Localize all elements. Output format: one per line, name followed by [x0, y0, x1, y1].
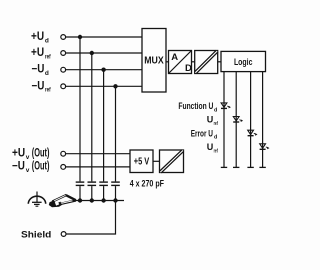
+5V converter U5	[130, 150, 153, 173]
wire vertical from +Uref node to C2	[91, 53, 93, 181]
DIN rail contact symbol	[49, 195, 76, 207]
wire -Ud to MUX	[66, 69, 142, 71]
svg-text:4 x 270 pF: 4 x 270 pF	[130, 179, 165, 189]
endcap output 4	[259, 166, 265, 168]
node C2 bus	[90, 198, 94, 202]
wire +Ud to MUX	[66, 36, 142, 38]
svg-text:D: D	[185, 63, 192, 74]
label +Uref	[31, 47, 51, 60]
svg-text:U: U	[207, 142, 214, 152]
capacitor C4	[111, 182, 120, 185]
svg-text:ref: ref	[45, 87, 51, 94]
capacitor C2	[88, 182, 97, 185]
svg-text:d: d	[214, 107, 217, 113]
label Error Ud	[191, 129, 218, 141]
wire C3 to bus	[103, 186, 105, 200]
wire -Uv to 5V converter	[66, 166, 130, 168]
svg-text:(Out): (Out)	[32, 161, 50, 173]
wire +Uv to 5V converter	[66, 153, 130, 155]
MUX U1	[142, 29, 166, 93]
svg-text:ref: ref	[45, 53, 51, 60]
wire C4 to bus	[115, 186, 117, 200]
svg-text:U: U	[207, 115, 214, 125]
svg-text:A: A	[171, 52, 178, 63]
label Function Ud	[178, 101, 217, 113]
wire vertical from +Ud node to C1	[79, 37, 81, 181]
wire C2 to bus	[91, 186, 93, 200]
node on -Uref wire	[113, 84, 117, 88]
wire Logic output 2	[235, 72, 237, 168]
label +Ud	[31, 31, 49, 44]
label -Uref	[32, 80, 52, 93]
terminal +Uref	[61, 51, 66, 56]
endcap output 3	[247, 166, 253, 168]
svg-text:−U: −U	[32, 64, 45, 76]
wire vertical from -Uref node to C4	[115, 86, 117, 181]
capacitor C3	[99, 182, 108, 185]
galvanic isolator U3	[195, 51, 218, 74]
svg-text:+5 V: +5 V	[134, 157, 150, 168]
svg-text:+U: +U	[31, 31, 44, 43]
node C3 bus	[101, 198, 105, 202]
node on -Ud wire	[101, 68, 105, 72]
functional earth symbol	[28, 192, 45, 207]
node C4 bus	[113, 198, 117, 202]
wire vertical from -Ud node to C3	[103, 70, 105, 182]
terminal -Ud	[61, 67, 66, 72]
label -Ud	[32, 64, 49, 77]
wire +Uref to MUX	[66, 52, 142, 54]
label +Uv (Out)	[12, 147, 50, 160]
svg-text:Logic: Logic	[234, 57, 253, 68]
wire C1 to bus	[79, 186, 81, 200]
svg-text:d: d	[45, 70, 49, 77]
terminal -Uv (Out)	[61, 165, 66, 170]
svg-text:+U: +U	[12, 147, 25, 159]
endcap output 1	[221, 166, 227, 168]
svg-text:d: d	[45, 37, 49, 44]
LED D4 Uref	[260, 144, 270, 150]
svg-text:+U: +U	[31, 47, 44, 59]
capacitor C1	[76, 182, 85, 185]
svg-text:Function U: Function U	[178, 101, 213, 111]
LED D3 Error Ud	[248, 130, 258, 136]
svg-text:Error U: Error U	[191, 129, 213, 139]
label -Uv (Out)	[12, 161, 50, 174]
label Uref row2	[207, 115, 218, 127]
LED D1 Function Ud	[221, 103, 231, 109]
wire Logic output 4	[262, 72, 264, 168]
svg-text:ref: ref	[214, 148, 218, 154]
terminal Shield	[61, 232, 66, 237]
node on +Uref wire	[90, 51, 94, 55]
svg-text:MUX: MUX	[144, 56, 164, 67]
svg-text:−U: −U	[32, 80, 45, 92]
wire Logic output 3	[250, 72, 252, 168]
label Uref row4	[207, 142, 218, 154]
wire Logic output 1	[223, 72, 225, 168]
svg-text:v: v	[26, 167, 30, 174]
svg-text:v: v	[26, 154, 30, 161]
wire MUX to A/D	[166, 61, 169, 63]
svg-text:ref: ref	[214, 121, 218, 127]
wire isolator to Logic	[218, 61, 221, 63]
wire A/D to isolator	[192, 61, 195, 63]
galvanic isolator U6	[160, 150, 184, 173]
terminal +Uv (Out)	[61, 151, 66, 156]
wire 5V to isolator 2	[153, 160, 160, 162]
Logic U4	[221, 51, 266, 71]
node on +Ud wire	[78, 35, 82, 39]
node C1 bus	[78, 198, 82, 202]
svg-text:(Out): (Out)	[32, 147, 50, 159]
svg-text:d: d	[214, 135, 217, 141]
LED D2 Uref	[233, 117, 243, 123]
wire -Uref to MUX	[66, 85, 142, 87]
svg-text:Shield: Shield	[21, 229, 51, 239]
terminal +Ud	[61, 35, 66, 40]
terminal -Uref	[61, 84, 66, 89]
A/D converter U2	[169, 51, 193, 75]
endcap output 2	[233, 166, 239, 168]
ground bus wire	[74, 200, 124, 202]
wire shield drop	[66, 201, 116, 235]
svg-text:−U: −U	[12, 161, 25, 173]
